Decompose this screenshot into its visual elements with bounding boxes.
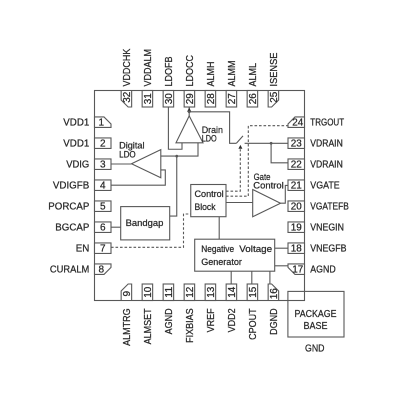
svg-text:VNEGIN: VNEGIN	[310, 223, 344, 234]
svg-text:AGND: AGND	[164, 308, 175, 334]
svg-text:12: 12	[185, 286, 196, 297]
svg-text:FIXBIAS: FIXBIAS	[185, 308, 196, 343]
svg-text:27: 27	[227, 93, 238, 104]
svg-text:5: 5	[100, 202, 106, 213]
svg-text:23: 23	[291, 139, 302, 150]
svg-text:VDD2: VDD2	[227, 308, 238, 332]
svg-text:LDO: LDO	[202, 134, 217, 144]
svg-text:EN: EN	[76, 244, 90, 255]
svg-text:15: 15	[248, 286, 259, 297]
svg-text:29: 29	[185, 93, 196, 104]
svg-text:ALML: ALML	[248, 63, 259, 87]
svg-text:7: 7	[100, 244, 106, 255]
svg-text:GND: GND	[305, 343, 325, 355]
svg-text:17: 17	[292, 265, 303, 276]
svg-text:Bandgap: Bandgap	[126, 218, 164, 228]
svg-text:LDOCC: LDOCC	[185, 55, 196, 87]
svg-text:CURALM: CURALM	[50, 265, 89, 276]
svg-text:VDIG: VDIG	[66, 160, 89, 171]
svg-text:16: 16	[269, 288, 280, 299]
svg-text:3: 3	[100, 160, 106, 171]
svg-text:BGCAP: BGCAP	[55, 223, 89, 234]
svg-text:ISENSE: ISENSE	[269, 52, 280, 86]
svg-text:ALMSET: ALMSET	[143, 308, 154, 344]
svg-text:AGND: AGND	[310, 265, 336, 276]
svg-text:VREF: VREF	[206, 308, 217, 332]
svg-text:VDRAIN: VDRAIN	[310, 139, 343, 150]
svg-text:ALMM: ALMM	[227, 61, 238, 87]
svg-text:VDDCHK: VDDCHK	[122, 48, 133, 86]
svg-text:30: 30	[164, 93, 175, 104]
svg-text:Block: Block	[195, 202, 216, 212]
svg-text:13: 13	[206, 286, 217, 297]
svg-text:11: 11	[164, 286, 175, 297]
svg-text:ALMH: ALMH	[206, 62, 217, 87]
svg-text:18: 18	[291, 244, 302, 255]
svg-text:Voltage: Voltage	[239, 244, 272, 254]
svg-text:PACKAGE: PACKAGE	[295, 308, 337, 320]
svg-text:31: 31	[143, 93, 154, 104]
svg-text:14: 14	[227, 286, 238, 297]
svg-text:10: 10	[143, 286, 154, 297]
svg-text:Negative: Negative	[201, 244, 234, 254]
svg-text:VDRAIN: VDRAIN	[310, 160, 343, 171]
svg-text:24: 24	[292, 118, 303, 129]
svg-text:LDO: LDO	[119, 149, 136, 159]
svg-text:VGATEFB: VGATEFB	[310, 202, 349, 213]
svg-text:BASE: BASE	[304, 320, 328, 332]
svg-text:9: 9	[122, 291, 133, 297]
svg-text:1: 1	[98, 118, 104, 129]
svg-text:22: 22	[291, 160, 302, 171]
svg-text:CPOUT: CPOUT	[248, 308, 259, 340]
svg-text:ALMTRG: ALMTRG	[122, 308, 133, 346]
svg-text:LDOFB: LDOFB	[164, 56, 175, 86]
svg-text:8: 8	[98, 265, 104, 276]
svg-text:20: 20	[291, 202, 302, 213]
svg-text:VDD1: VDD1	[63, 139, 89, 150]
svg-text:PORCAP: PORCAP	[48, 202, 89, 213]
svg-text:21: 21	[291, 181, 302, 192]
svg-text:Generator: Generator	[201, 257, 242, 267]
svg-text:32: 32	[122, 91, 133, 102]
svg-text:19: 19	[291, 223, 302, 234]
svg-text:DGND: DGND	[269, 308, 280, 335]
svg-text:VDDALM: VDDALM	[143, 49, 154, 87]
svg-text:6: 6	[100, 223, 106, 234]
svg-text:VGATE: VGATE	[310, 181, 340, 192]
svg-text:Control: Control	[253, 181, 283, 191]
svg-text:25: 25	[269, 91, 280, 102]
svg-text:TRGOUT: TRGOUT	[310, 118, 344, 129]
svg-text:2: 2	[100, 139, 106, 150]
svg-text:28: 28	[206, 93, 217, 104]
svg-text:4: 4	[100, 181, 106, 192]
svg-text:VNEGFB: VNEGFB	[310, 244, 346, 255]
svg-text:26: 26	[248, 93, 259, 104]
svg-text:Control: Control	[195, 189, 224, 199]
svg-text:VDD1: VDD1	[63, 118, 89, 129]
svg-text:VDIGFB: VDIGFB	[53, 181, 90, 192]
